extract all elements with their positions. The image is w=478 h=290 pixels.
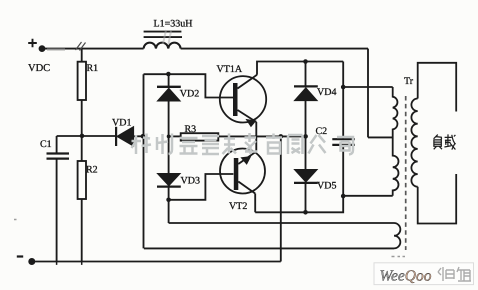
node VD2 top dot <box>166 72 171 77</box>
svg-text:VD5: VD5 <box>317 181 336 192</box>
node R3 tap dot <box>167 135 171 139</box>
svg-text:Tr: Tr <box>404 76 414 87</box>
wire C2 column upper <box>342 62 344 140</box>
svg-text:C1: C1 <box>40 139 52 150</box>
node VD4 top dot <box>303 59 308 64</box>
wire VT2 base path <box>169 174 234 200</box>
node VD4 VD5 midpoint dot <box>303 134 308 139</box>
wire winding top tap <box>343 86 393 88</box>
wire center tap <box>368 136 393 138</box>
wire scratch artifact near input <box>76 42 86 51</box>
wire right vertical to center tap <box>367 49 369 138</box>
wire top rail left <box>42 48 144 50</box>
diode VD2 <box>157 86 181 88</box>
artifact dots above watermark box <box>392 256 406 258</box>
wire VT2 collector down <box>254 194 256 213</box>
feedback winding top wire <box>169 222 394 224</box>
wire C2 column lower <box>342 145 344 196</box>
node junction R1 R2 C1 VD1 <box>80 134 85 139</box>
load label 负载 <box>434 134 456 149</box>
diode VD3 <box>157 174 180 186</box>
transistor VT2 <box>220 149 265 194</box>
node VD5 bottom dot <box>303 210 308 215</box>
svg-text:VD3: VD3 <box>181 176 200 187</box>
wire winding bottom tap <box>343 195 393 197</box>
wire VD5 to bottom dot <box>305 183 307 212</box>
feedback winding bottom wire <box>144 247 394 249</box>
diode VD1 <box>115 127 117 146</box>
wire top rail right <box>181 48 368 50</box>
node + terminal plus <box>28 39 37 48</box>
wire mid rail <box>218 135 305 137</box>
svg-text:L1=33uH: L1=33uH <box>154 19 193 30</box>
wire top-left rail to VT1A base <box>144 74 234 97</box>
svg-text:R2: R2 <box>86 165 98 176</box>
transformer Tr primary winding <box>393 87 399 196</box>
svg-text:VT2: VT2 <box>229 201 247 212</box>
svg-text:VDC: VDC <box>28 63 50 74</box>
wire VD4 to mid rail <box>305 101 307 170</box>
svg-text:WeeQoo: WeeQoo <box>380 268 432 285</box>
svg-text:VD2: VD2 <box>180 89 199 100</box>
transistor VT1A <box>220 76 266 122</box>
wire node to VD1 <box>82 135 116 137</box>
capacitor C1 <box>47 152 70 154</box>
wire bottom return tap <box>280 136 282 261</box>
wire VD2 cathode stub <box>168 74 170 86</box>
wire feedback bottom riser <box>143 247 145 249</box>
artifact speck left edge <box>14 219 17 221</box>
inductor L1 <box>144 43 181 49</box>
diode VD5 <box>294 170 317 183</box>
svg-text:VD1: VD1 <box>112 118 131 129</box>
wire C1 to bottom rail <box>56 159 58 262</box>
watermark company text <box>132 133 354 155</box>
svg-text:C2: C2 <box>316 126 328 137</box>
wire stub artifacts below rail <box>57 262 82 265</box>
transformer core dashed line <box>405 96 407 250</box>
node VD1 junction dot <box>141 134 146 139</box>
node minus terminal <box>17 255 23 257</box>
svg-text:R1: R1 <box>87 63 99 74</box>
node VT2 base tap dot <box>166 198 171 203</box>
wire VD1 to base-drive column <box>134 135 144 137</box>
node winding bottom dot <box>341 194 346 199</box>
diode VD4 <box>294 85 318 87</box>
node A input dot <box>39 45 46 52</box>
wire emitter vertical <box>255 122 257 152</box>
wire bottom rail <box>32 261 281 263</box>
node C2 top dot <box>341 85 346 90</box>
wire VD3 to feedback corner <box>168 187 170 223</box>
wire VT2 collector rail <box>255 196 343 212</box>
watermark WeeQoo box <box>374 263 474 285</box>
transformer secondary winding and load box <box>418 63 457 224</box>
resistor R2 <box>78 161 86 199</box>
wire R1 to node <box>81 100 83 161</box>
node mid-rail bottom tap dot <box>279 134 284 139</box>
feedback winding end cap <box>394 223 400 248</box>
resistor R1 <box>81 49 83 62</box>
wire VT1A collector to rail <box>257 62 343 75</box>
resistor R3 <box>169 135 181 137</box>
node negative terminal dot <box>28 258 35 265</box>
wire VD4 top stub <box>305 62 307 87</box>
svg-text:VD4: VD4 <box>317 87 336 98</box>
wire R2 to bottom rail <box>81 199 83 262</box>
svg-text:VT1A: VT1A <box>217 64 243 75</box>
wire VD2 to VD3 <box>168 101 170 174</box>
capacitor C2 <box>332 138 355 140</box>
svg-text:R3: R3 <box>185 124 197 135</box>
wire C1 branch <box>57 136 82 153</box>
wire base-drive column <box>143 74 145 248</box>
node VDC label <box>28 63 50 74</box>
